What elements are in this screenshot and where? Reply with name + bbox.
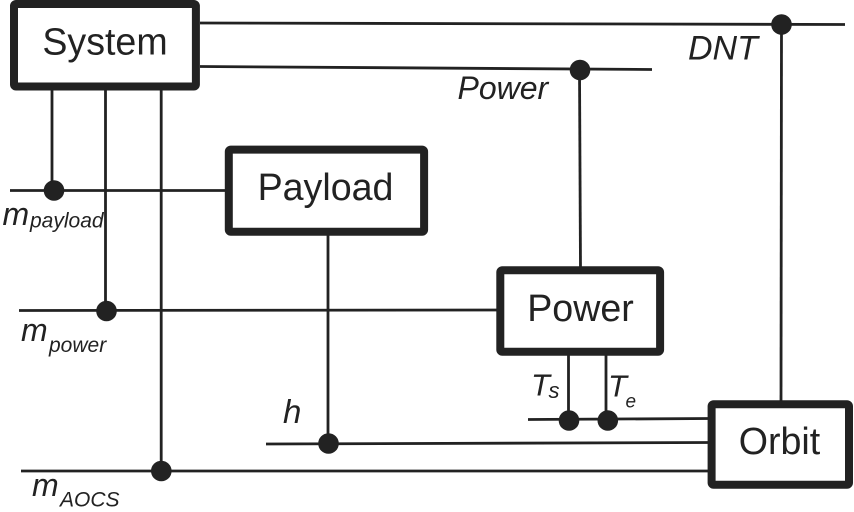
junction DNT: [771, 14, 792, 35]
svg-text:Power: Power: [458, 70, 550, 106]
wire Power net vertical: [580, 70, 581, 270]
wire DNT net horizontal: [200, 23, 845, 25]
junction h: [318, 433, 339, 454]
block Orbit: [712, 404, 849, 485]
wire System to m_power vertical: [104, 86, 107, 311]
junction Power net: [570, 60, 591, 81]
svg-text:System: System: [42, 21, 167, 63]
label m_AOCS: [32, 467, 120, 512]
svg-text:h: h: [283, 393, 301, 430]
svg-text:m: m: [3, 196, 30, 232]
junction m_AOCS: [151, 461, 172, 482]
svg-text:m: m: [32, 467, 59, 503]
block System: [14, 4, 196, 87]
wire m_payload horizontal: [10, 189, 228, 192]
wire T horizontal: [528, 419, 711, 420]
wire System to m_payload vertical: [51, 86, 54, 191]
svg-text:DNT: DNT: [688, 30, 760, 68]
wire Power Ts vertical: [567, 352, 570, 421]
label Ts: [531, 368, 560, 404]
svg-text:s: s: [549, 378, 560, 403]
svg-text:power: power: [48, 334, 107, 357]
wire m_AOCS horizontal: [21, 470, 711, 473]
svg-text:Power: Power: [527, 287, 634, 329]
wire Payload to h vertical: [327, 231, 330, 444]
junction m_power: [96, 301, 117, 322]
wire Power Te vertical: [605, 352, 608, 421]
junction Ts: [559, 410, 580, 431]
label m_payload: [3, 196, 105, 233]
label Te: [608, 369, 636, 413]
svg-text:e: e: [626, 392, 637, 413]
junction Te: [598, 410, 619, 431]
junction m_payload: [44, 180, 65, 201]
svg-text:Orbit: Orbit: [739, 420, 821, 462]
block Payload: [229, 150, 424, 232]
wire m_power horizontal: [19, 309, 500, 312]
svg-text:payload: payload: [29, 210, 105, 233]
wire DNT net vertical: [780, 25, 783, 405]
wire System to m_AOCS vertical: [160, 86, 163, 471]
wire Power net horizontal: [200, 67, 652, 70]
svg-text:m: m: [21, 312, 48, 348]
svg-text:Payload: Payload: [258, 166, 394, 208]
wire h horizontal: [266, 443, 711, 445]
label m_power: [21, 312, 107, 357]
block Power: [500, 270, 660, 352]
svg-text:AOCS: AOCS: [58, 489, 120, 512]
